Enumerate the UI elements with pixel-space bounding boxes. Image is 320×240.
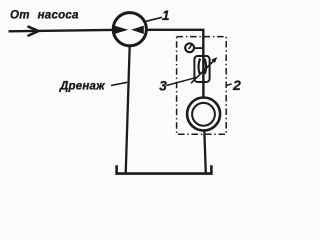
accumulator outer circle [187, 98, 220, 131]
enclosure boundary (unit 2, dash-dot) [177, 37, 227, 135]
svg-text:От насоса: От насоса [10, 9, 79, 21]
wire below accumulator to tank [204, 130, 206, 174]
adjustability arrow through valve [191, 60, 215, 84]
wire inlet line from pump [9, 30, 113, 31]
svg-text:Дренаж: Дренаж [59, 81, 105, 93]
wire drain line from motor [126, 46, 130, 174]
wire motor to enclosure, top run [148, 30, 204, 98]
throttle right arc [205, 59, 207, 74]
leader line to label 1 [144, 17, 162, 22]
motor left flow arrowhead [114, 26, 128, 34]
leader line from label 3 [166, 77, 197, 85]
accumulator inner circle [192, 103, 215, 126]
arrowhead on inlet line [28, 26, 39, 36]
tank (reservoir) [117, 165, 212, 173]
svg-text:2: 2 [232, 77, 241, 93]
svg-text:1: 1 [162, 8, 170, 23]
svg-text:3: 3 [159, 78, 167, 93]
throttle left arc [198, 59, 200, 74]
wire gauge stub [194, 47, 203, 49]
leader line from Дренаж to drain wire [111, 82, 127, 85]
motor right flow arrowhead [131, 26, 144, 34]
pressure gauge circle [185, 43, 194, 52]
gauge needle [189, 45, 193, 50]
leader dash for label 2 [227, 84, 232, 85]
throttle valve 3 body [194, 56, 209, 82]
hydraulic motor U1 circle [113, 13, 146, 46]
